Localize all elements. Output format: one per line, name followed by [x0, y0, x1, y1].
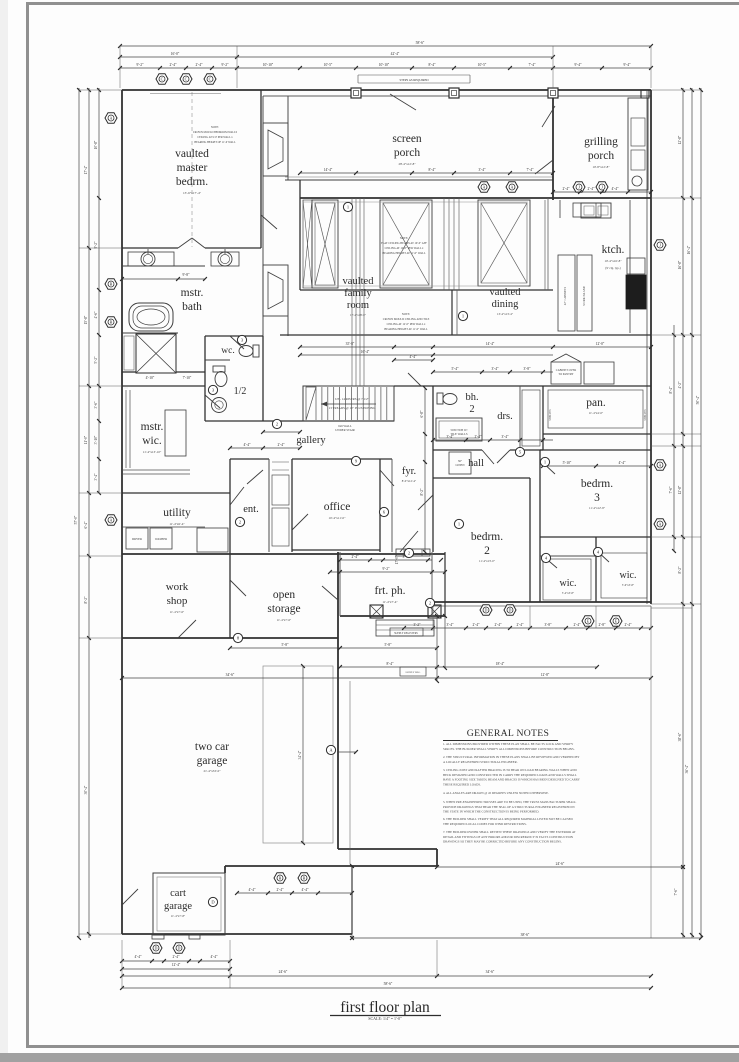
wic east shelves	[601, 553, 647, 598]
beam lines between panels 2	[443, 198, 445, 290]
svg-text:B: B	[279, 876, 282, 881]
svg-text:12'-4": 12'-4"	[172, 963, 181, 967]
svg-text:11'-4"x7'-8": 11'-4"x7'-8"	[171, 914, 186, 918]
svg-text:wic.: wic.	[560, 578, 577, 589]
marker right bedrm3 lower	[654, 519, 666, 529]
marker south wic E1	[582, 616, 594, 626]
corridor south of family / kitchen bottom wall	[280, 334, 651, 336]
exterior wall east	[650, 90, 652, 604]
marker bottom D2	[173, 943, 185, 953]
svg-text:16'-0": 16'-0"	[171, 52, 180, 56]
svg-text:58'-6": 58'-6"	[384, 982, 393, 986]
svg-text:1: 1	[458, 522, 460, 527]
bottom extenders	[121, 940, 123, 988]
door utility	[230, 487, 244, 505]
svg-text:gallery: gallery	[296, 435, 326, 446]
svg-text:2'-4": 2'-4"	[352, 555, 359, 559]
svg-text:D: D	[155, 946, 158, 951]
svg-text:SCALE: 1/4" = 1'-0": SCALE: 1/4" = 1'-0"	[368, 1016, 402, 1021]
svg-text:SHELVES: SHELVES	[644, 409, 647, 421]
door master to hall	[261, 215, 277, 229]
svg-text:mstr.: mstr.	[141, 421, 164, 433]
pantry shelf box	[548, 390, 643, 428]
svg-text:12'-8": 12'-8"	[541, 673, 550, 677]
jog vertical wall	[436, 849, 438, 866]
utility counter	[122, 526, 205, 528]
marker screen porch A2	[506, 182, 518, 192]
svg-text:1/2: 1/2	[234, 386, 247, 397]
window marker C3	[204, 74, 216, 84]
bottom dim row 4 58'-6	[122, 987, 651, 989]
utility north wall	[122, 492, 230, 494]
svg-text:cart: cart	[170, 888, 186, 899]
svg-text:36'-4": 36'-4"	[685, 764, 689, 773]
svg-text:2'-4": 2'-4"	[517, 623, 524, 627]
svg-text:8'-2": 8'-2"	[678, 566, 682, 573]
svg-text:11'-4"x7'-6": 11'-4"x7'-6"	[277, 618, 292, 622]
drs south wall	[510, 449, 543, 451]
front door marker circle	[404, 548, 413, 557]
wall west of porch / garage east wall	[337, 552, 339, 849]
svg-text:4. ALL ANGLES ARE DRAWN @ 45: 4. ALL ANGLES ARE DRAWN @ 45 DEGREES UNL…	[443, 791, 549, 795]
grilling porch door leaf diagonal	[542, 106, 555, 127]
svg-text:5'-2": 5'-2"	[94, 356, 98, 363]
east wall extension line to bottom dim	[650, 606, 652, 938]
svg-text:4'-4": 4'-4"	[244, 443, 251, 447]
svg-text:3'-4": 3'-4"	[492, 367, 499, 371]
svg-text:mstr.: mstr.	[181, 287, 204, 299]
svg-text:2: 2	[276, 422, 278, 427]
garage north wall	[122, 637, 338, 639]
vanity counter west	[128, 252, 174, 266]
svg-text:9'-4": 9'-4"	[624, 63, 631, 67]
dim line right second	[682, 88, 684, 938]
svg-text:BEARING HEIGHT AT 11'-6" WALL: BEARING HEIGHT AT 11'-6" WALL	[382, 252, 425, 255]
svg-text:C: C	[209, 77, 212, 82]
grilling porch sink	[632, 176, 642, 186]
stair direction arrow	[321, 403, 376, 405]
border frame top	[26, 2, 739, 5]
svg-text:2'-4": 2'-4"	[277, 888, 284, 892]
svg-text:vaulted: vaulted	[343, 276, 375, 287]
svg-text:34'-4": 34'-4"	[298, 750, 302, 759]
svg-text:10'-10": 10'-10"	[263, 63, 274, 67]
closet strip east line lower	[287, 265, 289, 336]
ent closet lower	[272, 508, 289, 546]
svg-text:24'-6": 24'-6"	[556, 862, 565, 866]
svg-text:D: D	[485, 608, 488, 613]
wc/half-bath divider stub	[205, 359, 230, 361]
master suite closet strip west line	[262, 96, 264, 336]
svg-text:10'-5": 10'-5"	[478, 63, 487, 67]
svg-text:CEILING AT 9'-0' PER WALL x: CEILING AT 9'-0' PER WALL x	[197, 136, 233, 139]
svg-text:UP - 14 RISERS @ 7 1/2": UP - 14 RISERS @ 7 1/2"	[335, 397, 369, 401]
svg-text:4'-4": 4'-4"	[135, 955, 142, 959]
east wall inner line	[646, 90, 648, 604]
svg-text:7'-6": 7'-6"	[674, 888, 678, 895]
gallery south wall east / office north	[292, 458, 392, 460]
front porch west edge	[339, 552, 341, 616]
svg-text:7'-10": 7'-10"	[183, 376, 192, 380]
grill cabinet	[631, 150, 645, 170]
svg-text:8'-4": 8'-4"	[669, 386, 673, 393]
dim row 34'-6 garage top	[122, 677, 651, 679]
svg-text:58'-6": 58'-6"	[416, 41, 425, 45]
svg-text:5'-8": 5'-8"	[385, 643, 392, 647]
svg-text:6'-8": 6'-8"	[420, 410, 424, 417]
right dim extenders	[651, 89, 701, 91]
svg-text:15'-8": 15'-8"	[84, 315, 88, 324]
svg-text:7'-4": 7'-4"	[529, 63, 536, 67]
svg-text:vaulted: vaulted	[175, 148, 209, 160]
svg-text:3'-4": 3'-4"	[502, 435, 509, 439]
front wall utility/office/foyer	[122, 553, 445, 555]
door workshop-garage	[178, 620, 196, 638]
svg-text:14'-4": 14'-4"	[486, 342, 495, 346]
svg-text:11'-4"x7'-4": 11'-4"x7'-4"	[382, 600, 398, 604]
foyer east wall extension	[431, 552, 433, 616]
dim row under storage 5-8 5-8	[230, 647, 437, 649]
dim line right outermost 50'-4	[700, 88, 702, 938]
svg-text:2'-4": 2'-4"	[563, 187, 570, 191]
ent closet west line	[268, 459, 270, 552]
svg-text:SPACES. THE BUILDER SHALL VERI: SPACES. THE BUILDER SHALL VERIFY ALL DIM…	[443, 747, 575, 751]
gallery north wall / stair bottom	[263, 420, 394, 422]
grilling porch counter east	[628, 98, 648, 190]
svg-text:A: A	[659, 463, 662, 468]
south wall garage	[122, 933, 352, 935]
family band upper frame line	[303, 201, 528, 203]
svg-text:NOTE:: NOTE:	[400, 237, 408, 240]
svg-text:grilling: grilling	[584, 136, 618, 148]
gallery dim row	[230, 447, 300, 449]
pantry west wall	[542, 386, 544, 450]
svg-text:2'-4": 2'-4"	[588, 187, 595, 191]
screen porch post 1	[351, 88, 361, 98]
front porch south edge	[340, 615, 445, 617]
svg-text:B: B	[110, 282, 113, 287]
svg-text:garage: garage	[197, 755, 228, 767]
svg-text:10'-8"x12'-8": 10'-8"x12'-8"	[592, 165, 610, 169]
wic west shelf line	[540, 555, 596, 557]
marker rear B1	[274, 873, 286, 883]
bedroom2 east wall	[529, 478, 531, 602]
gallery south wall west	[230, 458, 269, 460]
supply register box	[390, 628, 423, 636]
master wic north wall	[122, 385, 205, 387]
svg-text:14'-4": 14'-4"	[324, 168, 333, 172]
door ent to gallery	[247, 470, 263, 484]
svg-text:34'-6": 34'-6"	[226, 673, 235, 677]
svg-text:34'-6": 34'-6"	[486, 970, 495, 974]
marker rear B2	[298, 873, 310, 883]
svg-text:8'-4": 8'-4"	[429, 168, 436, 172]
svg-text:BEARING HEIGHT OF 11'-6' WALL: BEARING HEIGHT OF 11'-6' WALL	[194, 141, 236, 144]
cart garage door jamb west	[152, 934, 164, 939]
svg-text:17'-4"x18'-0": 17'-4"x18'-0"	[350, 313, 367, 317]
screen porch south screen wall	[285, 179, 553, 181]
svg-text:2'-4": 2'-4"	[574, 623, 581, 627]
svg-text:10'-4"x16'-8": 10'-4"x16'-8"	[604, 259, 622, 263]
svg-text:bh.: bh.	[465, 392, 478, 403]
border frame left	[26, 2, 29, 1048]
dim line rear right 24'-6	[437, 866, 683, 868]
svg-text:2: 2	[429, 601, 431, 606]
wc north wall	[205, 335, 263, 337]
porch column east	[428, 605, 441, 618]
svg-text:4'-6": 4'-6"	[94, 311, 98, 318]
door wc	[230, 336, 244, 349]
family room west wall	[299, 180, 301, 290]
svg-text:11'-4"x6'-4": 11'-4"x6'-4"	[169, 522, 185, 526]
dim line top segments	[120, 67, 651, 69]
door fyr to office side	[380, 470, 394, 486]
svg-text:10'-8": 10'-8"	[94, 140, 98, 149]
porch column west	[370, 605, 383, 618]
half bath toilet	[213, 366, 225, 372]
office south wall	[292, 549, 380, 551]
dim line left outermost 57'-0	[78, 88, 80, 938]
svg-text:11'-4"x12'-8": 11'-4"x12'-8"	[589, 506, 606, 510]
svg-text:16'-4": 16'-4"	[687, 245, 691, 254]
grill counter sink unit	[573, 203, 601, 217]
pantry south wall	[543, 433, 651, 435]
svg-text:9'-2": 9'-2"	[137, 63, 144, 67]
wic shelf line west 2	[129, 390, 131, 468]
master bedroom door leaf	[178, 238, 192, 248]
drs closet west line	[519, 386, 521, 450]
ent closet shelves	[272, 475, 289, 505]
master bedroom south wall west part	[122, 247, 178, 249]
svg-text:2'-4": 2'-4"	[196, 63, 203, 67]
drs closet shelves	[522, 390, 540, 446]
bh2 dim row	[433, 371, 553, 373]
svg-text:42'-4": 42'-4"	[391, 52, 400, 56]
dim line right first	[673, 325, 675, 551]
svg-text:2'-4": 2'-4"	[170, 63, 177, 67]
screen porch post 2	[449, 88, 459, 98]
window marker C1	[156, 74, 168, 84]
svg-text:5'-8": 5'-8"	[282, 643, 289, 647]
marker south wic E2	[610, 616, 622, 626]
svg-text:porch: porch	[394, 147, 420, 159]
svg-text:two car: two car	[195, 741, 229, 753]
dim line right third	[691, 88, 693, 938]
dim row 35'-8 under family	[300, 346, 651, 348]
bottom dim row 24-6 34-6	[122, 975, 651, 977]
bath-wic wall east part	[176, 371, 205, 373]
bedroom3 north wall	[540, 449, 651, 451]
svg-text:DETAIL AND FITTINGS OF ANY ERR: DETAIL AND FITTINGS OF ANY ERRORS AND/OR…	[443, 835, 574, 839]
bedroom3 west wall	[539, 450, 541, 602]
screen porch door leaf diagonal	[390, 94, 416, 110]
vaulted ceiling hatch panel 1	[312, 200, 338, 288]
utility east wall	[229, 459, 231, 556]
bath2 south wall	[433, 449, 482, 451]
vertical extension line porch east 2	[444, 616, 446, 668]
door bedrm2	[418, 495, 433, 510]
svg-text:2'-4": 2'-4"	[278, 443, 285, 447]
exterior wall west	[121, 90, 123, 934]
svg-text:38'-6": 38'-6"	[678, 732, 682, 741]
marker bottom D1	[150, 943, 162, 953]
kitchen cabinet above appliance	[627, 258, 645, 274]
svg-text:1: 1	[544, 460, 546, 465]
marker right kitchen	[654, 240, 666, 250]
svg-text:3'-2": 3'-2"	[414, 623, 421, 627]
washer	[150, 528, 172, 549]
vanity counter east	[211, 252, 239, 266]
svg-text:master: master	[177, 162, 208, 174]
dim line top 42'-4	[120, 56, 553, 58]
wic shelf line west	[125, 390, 127, 468]
svg-text:6'-4": 6'-4"	[84, 521, 88, 528]
svg-text:fyr.: fyr.	[402, 466, 416, 477]
svg-text:24'-6": 24'-6"	[279, 970, 288, 974]
svg-text:porch: porch	[588, 150, 614, 162]
foyer east / bath2 west wall	[432, 386, 434, 552]
wall between screen porch and grilling porch	[552, 90, 554, 200]
svg-text:wic.: wic.	[620, 570, 637, 581]
border frame bottom	[26, 1045, 739, 1048]
front porch east edge	[444, 552, 446, 616]
svg-text:9'-4": 9'-4"	[575, 63, 582, 67]
svg-text:bedrm.: bedrm.	[581, 478, 613, 490]
exterior wall north - porches	[261, 89, 651, 91]
vanity counter line	[122, 265, 205, 267]
bath2-pantry north wall	[394, 385, 553, 387]
south wing dim extenders	[432, 606, 434, 628]
left dim extenders	[79, 89, 122, 91]
svg-text:storage: storage	[267, 603, 300, 615]
family-dining-kitchen north wall	[300, 197, 651, 199]
workshop east wall	[229, 556, 231, 638]
svg-text:3'-6": 3'-6"	[94, 401, 98, 408]
svg-text:5'-10": 5'-10"	[563, 461, 572, 465]
screen porch header note box	[358, 74, 470, 76]
svg-text:D: D	[178, 946, 181, 951]
svg-text:DRAWINGS SO THEY MAY BE CORREC: DRAWINGS SO THEY MAY BE CORRECTED BEFORE…	[443, 840, 562, 844]
svg-text:57'-0": 57'-0"	[74, 515, 78, 524]
bottom gray band	[0, 1053, 739, 1062]
dim row 2 under family	[300, 354, 553, 356]
svg-text:screen: screen	[392, 133, 422, 145]
svg-text:12'-8": 12'-8"	[678, 485, 682, 494]
svg-text:10'-5": 10'-5"	[324, 63, 333, 67]
wic island	[165, 410, 186, 456]
svg-text:38'-6": 38'-6"	[521, 933, 530, 937]
svg-text:9'-2": 9'-2"	[94, 241, 98, 248]
svg-text:SHELVES: SHELVES	[549, 409, 552, 421]
svg-text:1: 1	[462, 314, 464, 319]
kitchen east counter line	[629, 200, 631, 275]
svg-text:2'-4": 2'-4"	[173, 955, 180, 959]
office west wall	[291, 459, 293, 552]
svg-text:11'-4"x4'-0": 11'-4"x4'-0"	[589, 411, 604, 415]
cabinet above pantry 2	[584, 362, 614, 384]
svg-text:13'-4"x13'-4": 13'-4"x13'-4"	[497, 312, 514, 316]
marker grilling J2	[596, 182, 608, 192]
marker grilling J1	[573, 182, 585, 192]
svg-text:9'-2": 9'-2"	[383, 567, 390, 571]
exterior wall south - bedroom wing	[432, 601, 651, 603]
half bath south wall	[205, 420, 263, 422]
kitchen double sink	[581, 203, 611, 218]
svg-text:4'-4": 4'-4"	[249, 888, 256, 892]
vaulted ceiling hatch panel 2	[380, 200, 432, 288]
svg-text:WORK ISLAND: WORK ISLAND	[583, 286, 586, 306]
broom closet	[197, 528, 228, 552]
svg-text:3'-4": 3'-4"	[479, 168, 486, 172]
screen porch post 3	[548, 88, 558, 98]
dim line grilling porch bottom	[553, 191, 651, 193]
foyer width dim	[394, 359, 433, 361]
svg-text:utility: utility	[163, 507, 191, 519]
dryer	[126, 528, 148, 549]
bedroom2 north wall	[433, 477, 530, 479]
kitchen refrigerator-oven black block	[626, 275, 646, 309]
svg-text:2'-4": 2'-4"	[625, 623, 632, 627]
svg-text:CEILING AT 12'-0" PER WALL x: CEILING AT 12'-0" PER WALL x	[385, 247, 424, 250]
south bedroom wing wall inner line	[432, 605, 651, 607]
svg-text:NOTE:: NOTE:	[402, 313, 410, 316]
svg-text:open: open	[273, 589, 296, 601]
svg-text:room: room	[347, 300, 369, 311]
svg-text:7. THE BUILDER/OWNER SHALL RE: 7. THE BUILDER/OWNER SHALL REVIEW THESE …	[443, 830, 576, 834]
dim row rear recess	[237, 892, 352, 894]
svg-text:8'-4": 8'-4"	[429, 63, 436, 67]
svg-text:35'-8": 35'-8"	[346, 342, 355, 346]
wc west wall	[204, 336, 206, 421]
svg-text:2: 2	[239, 520, 241, 525]
cart garage door jamb east	[189, 934, 200, 939]
svg-text:2'-8": 2'-8"	[599, 623, 606, 627]
svg-text:8'-2": 8'-2"	[420, 488, 424, 495]
wic west shelves	[543, 559, 591, 600]
lavatory sink east	[218, 252, 232, 266]
svg-text:shop: shop	[167, 595, 188, 607]
svg-text:UNDER STAIR: UNDER STAIR	[335, 428, 355, 432]
bedroom3 south wall	[540, 536, 651, 538]
svg-text:4'-4": 4'-4"	[410, 355, 417, 359]
grill box	[631, 118, 645, 146]
family west hatch strip	[303, 200, 312, 288]
svg-text:4'-4": 4'-4"	[612, 187, 619, 191]
svg-text:13 TREADS @ 10" PLUS NOSING: 13 TREADS @ 10" PLUS NOSING	[329, 406, 376, 410]
svg-text:4'-10": 4'-10"	[146, 376, 155, 380]
porch north wall inner line	[263, 95, 651, 97]
door wic east	[596, 550, 609, 562]
master bedroom east wall	[260, 90, 262, 248]
svg-text:THESE REQUIRED LOADS.: THESE REQUIRED LOADS.	[443, 782, 481, 786]
front door leaf	[400, 531, 418, 552]
master shower	[136, 334, 176, 373]
dim line left third	[98, 88, 100, 493]
cart garage inner line	[157, 877, 221, 931]
lavatory sink west	[141, 252, 155, 266]
svg-text:10'-10": 10'-10"	[379, 63, 390, 67]
svg-text:CROWN MOULD BEDROOM WALLS: CROWN MOULD BEDROOM WALLS	[193, 131, 238, 134]
svg-text:50'-4": 50'-4"	[696, 395, 700, 404]
svg-text:1. ALL DIMENSIONS PROVIDED WI: 1. ALL DIMENSIONS PROVIDED WITHIN THESE …	[443, 742, 574, 746]
door circles	[272, 419, 281, 428]
marker circle garage east wall	[326, 745, 335, 754]
master bedroom south wall east part	[205, 247, 261, 249]
svg-text:9'-8": 9'-8"	[183, 273, 190, 277]
svg-text:3. CEILING JOIST AND RAFTER B: 3. CEILING JOIST AND RAFTER BRACING IS T…	[443, 768, 577, 772]
svg-text:2: 2	[469, 404, 474, 415]
svg-text:3'-10": 3'-10"	[94, 435, 98, 444]
